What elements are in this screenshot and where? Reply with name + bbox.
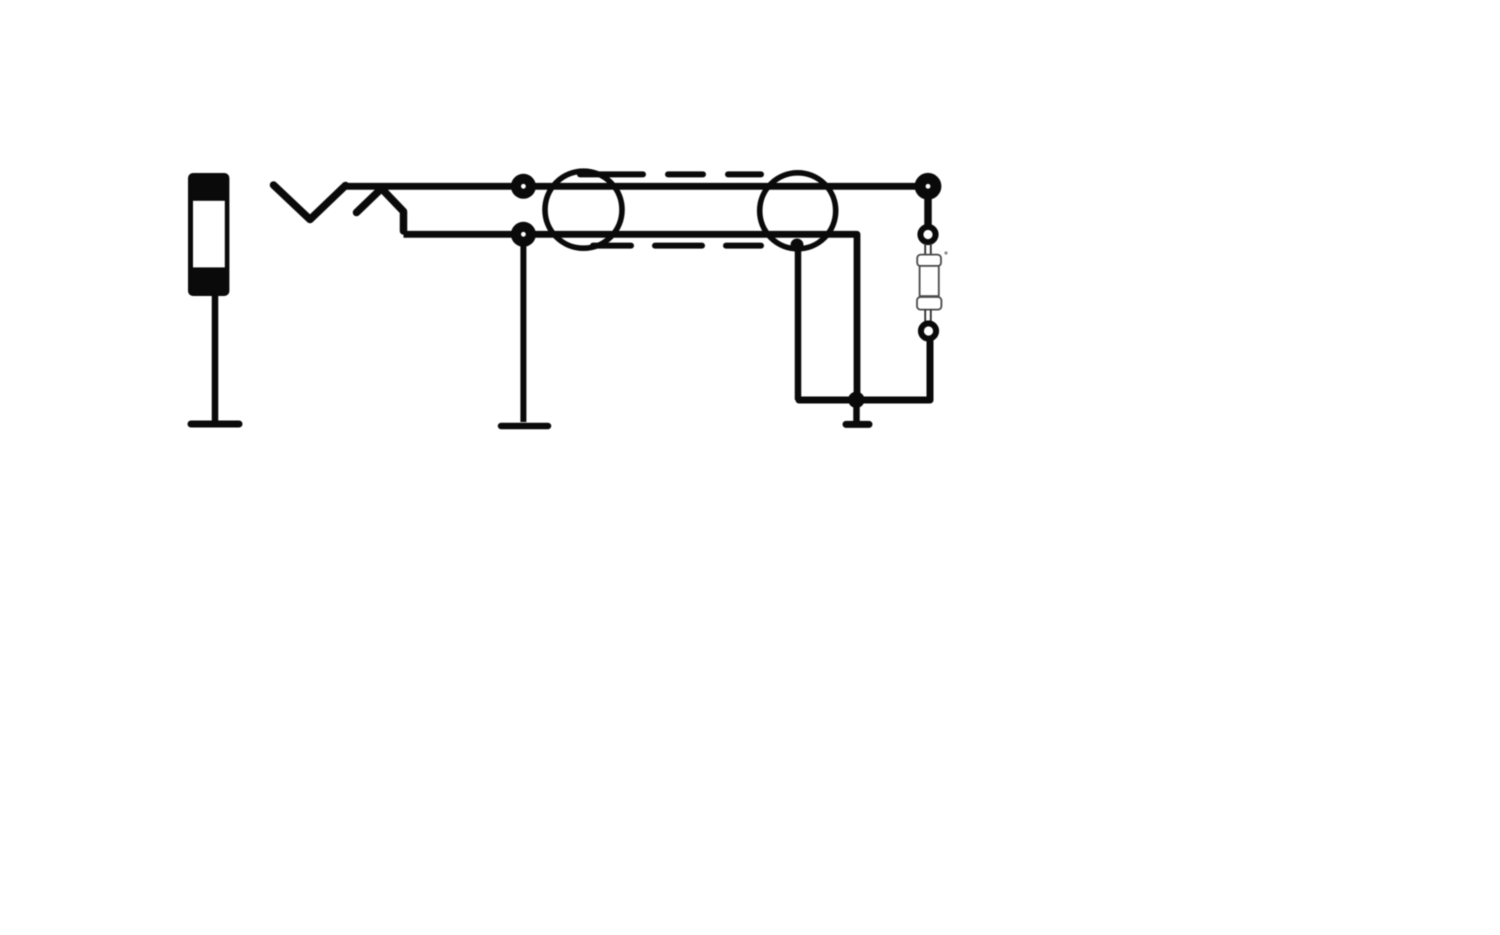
wire: tip conductor (top horizontal) xyxy=(343,183,928,190)
wire: output dot to resistor top eyelet xyxy=(924,192,932,226)
node: ground bus junction dot xyxy=(848,392,864,408)
resistor bottom eyelet terminal xyxy=(921,323,936,338)
resistor R1 body (cartridge with end caps) xyxy=(917,255,941,310)
node: tip terminal dot (left) xyxy=(511,174,536,199)
node: output terminal dot (top right, large) xyxy=(915,173,942,200)
wire: screen cross-section bottom to ground bus xyxy=(795,245,802,400)
node: screen terminal dot (left) xyxy=(511,222,536,247)
ground (right) xyxy=(846,400,869,424)
cable screen cross-section (right circle) xyxy=(760,173,836,249)
plug ring contact (caret spring) xyxy=(357,189,404,232)
ground (middle) xyxy=(501,423,548,430)
resistor top eyelet terminal xyxy=(920,227,935,242)
wire: plug body stem to ground xyxy=(212,296,219,421)
ground (left, under plug) xyxy=(191,421,239,428)
speck artifact xyxy=(944,251,947,254)
resistor R1 top lead xyxy=(925,243,931,256)
plug P1 body (jack plug sleeve/body) xyxy=(188,173,229,296)
wire: screen terminal to middle ground xyxy=(520,240,526,422)
node: screen cross-section bottom junction dot xyxy=(791,239,804,252)
resistor R1 bottom lead xyxy=(925,310,931,323)
cable shield dashed outline (top) xyxy=(580,171,761,177)
plug tip contact (V spring) xyxy=(274,185,346,220)
cable screen cross-section (left circle) xyxy=(545,171,622,248)
cable shield dashed outline (bottom) xyxy=(593,243,761,249)
wire: resistor bottom to ground bus xyxy=(927,340,934,400)
wire: screen conductor (bottom horizontal, corner down at right) xyxy=(404,234,858,400)
wire: ground bus (bottom horizontal) xyxy=(799,397,930,404)
